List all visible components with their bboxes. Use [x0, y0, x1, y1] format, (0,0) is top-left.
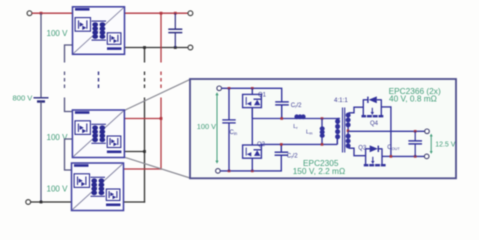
module PM2	[72, 110, 124, 158]
wire: red bus lower	[160, 98, 162, 170]
wire: module2 in- to module3 in+	[65, 139, 73, 170]
transistor Q3	[364, 145, 386, 166]
node: out cap tap -	[174, 46, 177, 49]
capacitor Cin	[222, 88, 235, 171]
wire: resonant link A	[252, 118, 339, 120]
callout line top	[125, 79, 190, 110]
node: Lm top	[321, 117, 324, 120]
svg-text:100 V: 100 V	[197, 122, 216, 131]
module PM3	[72, 163, 124, 211]
svg-text:Lm: Lm	[306, 130, 313, 136]
wire: bottom return to module PM3	[31, 201, 72, 203]
wire: output+ center tap rail	[348, 130, 425, 132]
transformer T1 4:1:1	[335, 108, 351, 153]
node: cap junction A	[280, 117, 283, 120]
wire: Q4 to output-	[381, 107, 391, 156]
dimension 12.5V	[430, 135, 432, 152]
wire: Q3 to output-	[382, 155, 392, 157]
svg-text:800 V: 800 V	[13, 94, 34, 103]
output terminal + (detail)	[425, 129, 430, 134]
wire: half-bridge midpoint	[251, 108, 253, 145]
node: cap junction B	[280, 143, 283, 146]
node: center tap	[347, 130, 350, 133]
transistor Q4	[362, 96, 384, 117]
wire: 800V left rail upper	[40, 13, 42, 97]
output terminal +	[188, 11, 193, 16]
svg-text:100 V: 100 V	[47, 29, 69, 38]
capacitor Cout	[408, 131, 422, 156]
node: Cout bottom	[414, 155, 417, 158]
wire: module1 in- stub	[65, 45, 73, 63]
node: module2 out- tap	[143, 150, 146, 153]
inductor Lm	[320, 119, 325, 145]
source V800 battery plates	[34, 98, 49, 102]
wire: secondary top to Q4	[349, 107, 364, 113]
node: Cout top	[414, 130, 417, 133]
dimension 100V	[216, 94, 218, 162]
output terminal -	[188, 45, 193, 50]
svg-text:Cin: Cin	[230, 130, 238, 136]
node: out+ bus tap	[160, 12, 163, 15]
input terminal bottom-left	[26, 200, 31, 205]
node: junction at bottom return	[40, 201, 43, 204]
svg-text:40 V, 0.8 mΩ: 40 V, 0.8 mΩ	[389, 93, 437, 103]
wire: primary bottom riser	[336, 139, 338, 144]
wire: black output- bus upper	[144, 48, 146, 63]
wire: red output+ bus upper	[160, 13, 162, 62]
svg-text:4:1:1: 4:1:1	[334, 97, 348, 104]
wire: top rail	[222, 88, 282, 101]
svg-text:Cr/2: Cr/2	[291, 103, 302, 109]
svg-text:Lr: Lr	[293, 124, 298, 130]
wire: bottom rail	[220, 156, 281, 171]
svg-text:Q3: Q3	[358, 145, 367, 151]
node: Q2 source	[251, 170, 254, 173]
wire: module2 out-	[125, 151, 145, 153]
wire: module1 out+	[125, 12, 189, 14]
wire: input+ to module PM1	[32, 12, 73, 14]
wire: black bus lower	[144, 98, 146, 203]
module PM1	[73, 7, 125, 55]
wire: red bus dashed	[160, 72, 162, 89]
capacitor Cr/2 top	[275, 102, 289, 119]
wire: module1 out-	[125, 47, 189, 49]
svg-text:Cr/2: Cr/2	[287, 153, 298, 159]
wire: resonant return B	[261, 143, 338, 145]
svg-text:Q4: Q4	[370, 121, 379, 127]
wire: 800V left rail lower	[40, 102, 42, 203]
svg-text:150 V, 2.2 mΩ: 150 V, 2.2 mΩ	[293, 166, 345, 176]
wire: black bus dashed	[144, 72, 146, 89]
svg-text:Q1: Q1	[258, 92, 267, 98]
wire: module2 out+	[125, 118, 162, 120]
wire: module3 out+	[124, 168, 162, 170]
node: out cap tap +	[174, 12, 177, 15]
node: out- bus tap	[143, 46, 146, 49]
node: Cin bottom	[228, 170, 231, 173]
transistor Q1	[243, 88, 262, 118]
input terminal - (detail)	[216, 169, 221, 174]
node: ellipsis dashed (more modules)	[98, 72, 100, 89]
node: Q1 drain	[251, 87, 254, 90]
output terminal - (detail)	[424, 154, 429, 159]
capacitor output filter	[168, 13, 182, 47]
wire: chain to module2 in+	[65, 98, 73, 112]
inductor Lr	[294, 114, 305, 119]
detail box frame	[190, 79, 456, 178]
wire: module3 out-	[124, 201, 145, 203]
node: junction at 800V rail top	[40, 12, 43, 15]
node: Lm bottom	[321, 143, 324, 146]
wire: output- rail	[391, 155, 425, 157]
node: module2 out+ tap	[160, 117, 163, 120]
transistor Q2	[243, 145, 262, 171]
input terminal + (detail)	[217, 86, 222, 91]
wire: series input chain dashed	[64, 72, 66, 89]
capacitor Cr/2 bottom	[275, 144, 289, 155]
wire: secondary bottom to Q3	[349, 148, 366, 156]
svg-text:12.5 V: 12.5 V	[435, 142, 456, 149]
node: Cin top	[228, 87, 231, 90]
svg-text:100 V: 100 V	[47, 185, 69, 194]
node: Q3 Q4 join	[390, 155, 393, 158]
input terminal top-left	[27, 11, 32, 16]
callout line bottom	[125, 157, 190, 178]
